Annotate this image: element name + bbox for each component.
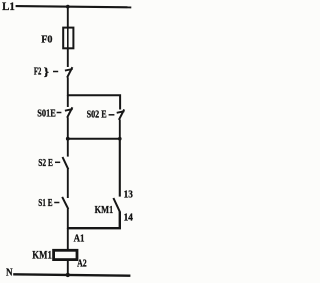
F2 linkage dash — [53, 71, 58, 73]
wire S02 to rung2 — [119, 120, 121, 140]
wire through fuse — [67, 28, 69, 48]
wire rung2 to S2 — [67, 139, 69, 157]
svg-text:S2 E: S2 E — [38, 158, 53, 169]
svg-text:S01E: S01E — [37, 108, 56, 119]
svg-text:N: N — [6, 266, 13, 278]
contact S01 (NC) bar — [65, 109, 73, 111]
svg-text:F2: F2 — [34, 66, 41, 77]
svg-text:S1 E: S1 E — [38, 198, 52, 209]
wire fuse to F2 contact — [67, 48, 69, 67]
wire N bottom rail — [13, 274, 130, 275]
wire rung top of parallel S01/S02 — [68, 95, 120, 109]
wire S01 to rung2 — [67, 117, 69, 139]
wire coil to N rail — [67, 260, 69, 276]
contact F2 (NC) blade — [67, 67, 72, 77]
junction rung2 right — [118, 137, 122, 141]
S1 linkage dash — [54, 202, 59, 204]
svg-text:A2: A2 — [77, 258, 87, 269]
svg-text:14: 14 — [124, 212, 134, 223]
wire right branch rung2 to KM1 contact — [119, 139, 121, 197]
wire F2 to split node — [67, 77, 69, 96]
svg-text:KM1: KM1 — [95, 204, 114, 216]
coil KM1 — [54, 250, 77, 259]
contact S1 (NO) blade — [62, 197, 68, 209]
wire rung2 (middle crossbar) — [68, 138, 120, 140]
wire S1 to rung3 — [67, 209, 69, 229]
svg-text:13: 13 — [124, 189, 133, 200]
wire KM1 contact to rung3 corner — [68, 211, 120, 228]
contact S01 (NC) blade — [67, 107, 72, 117]
contact KM1 13-14 (NO) blade — [113, 198, 119, 212]
svg-text:KM1: KM1 — [32, 247, 52, 261]
S02 linkage dash — [109, 114, 115, 116]
svg-text:}: } — [44, 64, 50, 78]
wire L1 top rail — [16, 6, 132, 7]
wire rung3 to coil — [67, 228, 69, 251]
fuse F0 — [63, 28, 73, 49]
wire rail to fuse — [67, 7, 69, 29]
contact S02 (NC) bar — [117, 111, 125, 113]
junction rung2 left — [66, 137, 70, 141]
wire S2 to S1 — [67, 169, 69, 198]
S01 linkage dash — [57, 112, 62, 114]
contact F2 (NC) bar — [65, 69, 73, 71]
junction N rail — [66, 273, 70, 277]
contact S02 (NC) blade — [119, 109, 124, 119]
svg-text:L1: L1 — [2, 0, 15, 13]
svg-text:F0: F0 — [41, 33, 53, 45]
S2 linkage dash — [55, 161, 60, 163]
svg-text:S02 E: S02 E — [87, 110, 107, 121]
junction top rail to main column — [66, 5, 70, 9]
contact S2 (NO) blade — [63, 157, 69, 169]
wire above S01 — [67, 95, 69, 107]
svg-text:A1: A1 — [74, 233, 85, 244]
